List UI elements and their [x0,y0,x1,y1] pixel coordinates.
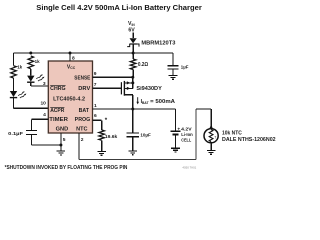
svg-text:NTC: NTC [76,127,88,133]
label IBAT = 500mA with arrow [137,97,139,102]
svg-text:6V: 6V [128,28,135,34]
LED D1 (CHRG indicator) [27,76,34,82]
node: diode output junction [132,52,135,55]
svg-text:DRV: DRV [78,86,91,92]
resistor R 1k (left, ACPR LED) [11,66,17,78]
thermistor RT1 10k NTC [204,129,218,143]
svg-text:CHRG: CHRG [50,86,65,92]
node: top rail / LED branch junction [29,52,32,55]
svg-text:TIMER: TIMER [49,117,68,123]
resistor R 19.6k PROG [99,130,105,140]
svg-text:6: 6 [94,113,97,119]
wire: to CHRG pin [31,85,49,87]
svg-text:PROG: PROG [75,117,91,123]
capacitor C 0.1uF timer [26,129,37,131]
pin 8 wire (VCC) [69,53,71,61]
svg-text:1k: 1k [17,65,22,71]
svg-text:1: 1 [94,103,97,109]
svg-text:Single Cell 4.2V 500mA Li-Ion: Single Cell 4.2V 500mA Li-Ion Battery Ch… [36,3,202,12]
capacitor C 10uF [132,109,134,133]
svg-text:4050 TA01: 4050 TA01 [182,165,196,169]
wire: top VCC rail [14,52,134,54]
svg-text:1µF: 1µF [181,64,189,70]
ground (19.6k) [101,150,103,152]
ground (GND pin) [60,150,62,152]
wire: GND pin down [60,133,62,151]
svg-text:BAT: BAT [79,108,90,114]
wire: NTC pin routing [78,133,80,160]
svg-text:9: 9 [94,71,97,77]
node: GND junction [59,144,62,147]
svg-text:Si9430DY: Si9430DY [136,86,162,92]
ground (1uF) [172,74,174,77]
svg-text:VIN: VIN [128,21,135,27]
svg-text:10: 10 [40,101,46,107]
wire: to ACPR pin [14,107,49,109]
svg-text:4: 4 [43,112,46,118]
node: top rail / VCC pin junction [69,52,72,55]
capacitor C 1uF [172,53,174,66]
wire [13,97,15,108]
svg-text:0.1µF: 0.1µF [8,131,23,137]
svg-text:10k NTC: 10k NTC [222,131,242,137]
svg-text:19.6k: 19.6k [105,134,118,140]
svg-text:+: + [177,128,180,133]
svg-text:T: T [214,136,216,140]
svg-text:ACPR: ACPR [50,108,65,114]
svg-text:3: 3 [43,81,46,87]
svg-text:8: 8 [72,56,75,62]
battery BT1 4.2V Li-Ion cell [175,109,177,131]
svg-text:*SHUTDOWN INVOKED BY FLOATING: *SHUTDOWN INVOKED BY FLOATING THE PROG P… [5,165,128,171]
svg-text:2: 2 [81,137,84,143]
diode D3 MBRM120T3 (Schottky) [130,38,137,43]
svg-text:7: 7 [94,82,97,88]
wire: TIMER pin to C timer [32,118,49,120]
wire: SENSE to node [93,76,133,78]
wire: VIN stub [132,33,134,39]
svg-text:CELL: CELL [181,138,191,144]
svg-text:LTC4050-4.2: LTC4050-4.2 [53,97,85,103]
svg-text:SENSE: SENSE [74,76,91,82]
resistor R 0.2 ohm sense [132,53,134,59]
IC U1 LTC4050-4.2 body [48,61,92,133]
wire [30,82,32,86]
svg-text:0.2Ω: 0.2Ω [138,62,148,68]
LED D2 (ACPR indicator) [10,91,17,97]
ground (10uF) [132,149,134,152]
svg-text:GND: GND [56,127,69,133]
node: BAT/drain/10uF junction [131,108,134,111]
svg-text:= 500mA: = 500mA [150,99,175,105]
svg-text:Li-Ion: Li-Ion [181,132,193,138]
wire [13,78,15,91]
svg-text:IBAT: IBAT [141,99,149,105]
resistor R 1k (middle, CHRG LED) [28,56,34,69]
wire: BAT rail [93,108,176,110]
wire: left branch vertical [13,53,15,66]
transistor Q1 Si9430DY PMOS [93,87,121,89]
node: thermistor top [210,126,213,129]
svg-text:10µF: 10µF [140,133,150,139]
wire: PROG pin to R prog [93,119,102,121]
ground (battery) [175,147,177,150]
wire [30,69,32,76]
svg-text:MBRM120T3: MBRM120T3 [141,40,175,46]
svg-text:4.2V: 4.2V [181,127,192,133]
svg-text:DALE NTHS-1206N02: DALE NTHS-1206N02 [222,137,276,143]
svg-text:*: * [105,117,108,124]
node: sense/source junction [131,76,134,79]
ground (thermistor) [210,149,212,152]
svg-text:1k: 1k [35,59,40,65]
svg-text:5: 5 [63,137,66,143]
